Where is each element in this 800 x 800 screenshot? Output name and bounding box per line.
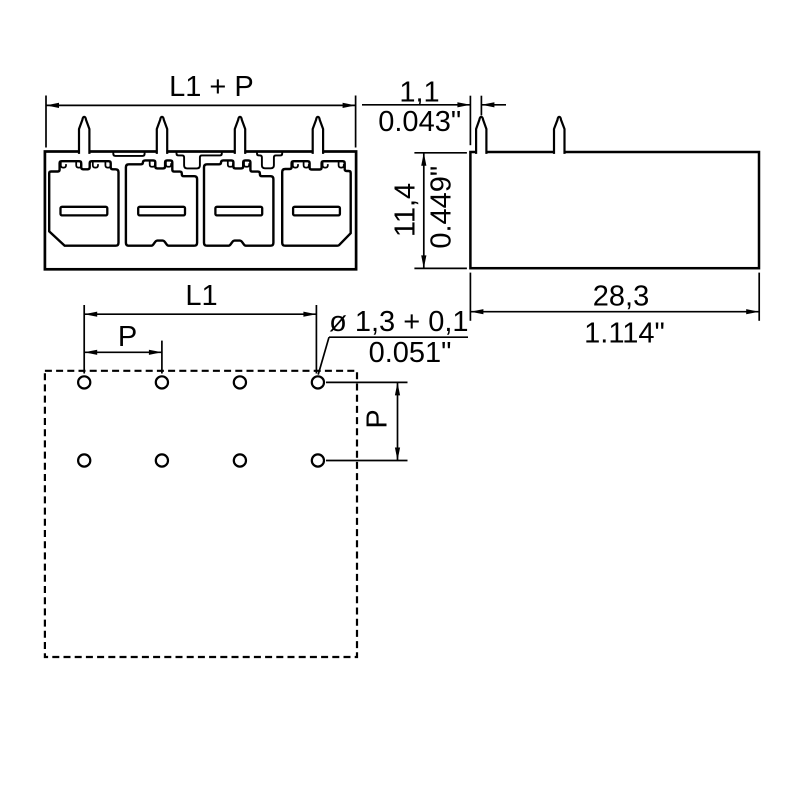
dimension 28,3 extension line right — [758, 273, 760, 321]
hole diameter leader line — [329, 336, 468, 338]
cavity 3 contact hooks — [228, 161, 233, 167]
drill hole row2 #1 — [78, 454, 90, 466]
drill hole row2 #4 — [312, 454, 324, 466]
dimension 1,1 extension line long — [469, 96, 471, 146]
svg-text:L1 + P: L1 + P — [169, 71, 254, 103]
svg-text:1.114": 1.114" — [584, 318, 665, 350]
plan dimension P tick — [161, 341, 163, 374]
side view pin row 1 — [476, 117, 486, 154]
svg-text:1,1: 1,1 — [399, 76, 439, 108]
dimension 28,3 line — [470, 311, 759, 313]
cavity 3 slot — [215, 207, 262, 216]
drill hole row2 #3 — [234, 454, 246, 466]
svg-text:0.043": 0.043" — [378, 106, 461, 138]
plan dimension P line — [84, 351, 162, 353]
side view housing rectangle — [470, 152, 759, 268]
housing top groove lip A — [113, 152, 144, 156]
drill hole row1 #2 — [156, 376, 168, 388]
plan dimension L1 tick left — [83, 305, 85, 374]
pole cavity 3 outline — [204, 160, 273, 245]
svg-text:0.051": 0.051" — [369, 337, 452, 369]
plan vertical P extension line top — [326, 381, 408, 383]
drill hole row1 #3 — [234, 376, 246, 388]
dimension L1+P extension line right — [355, 96, 357, 148]
dimension 1,1 line left segment — [362, 104, 470, 106]
cavity 4 slot — [293, 207, 340, 216]
svg-text:11,4: 11,4 — [390, 183, 422, 237]
svg-text:P: P — [118, 321, 137, 353]
cavity 2 contact hooks — [150, 161, 155, 167]
front view: connector housing body — [45, 152, 356, 270]
side view pin row 2 — [554, 117, 565, 154]
dimension L1+P extension line left — [45, 96, 47, 148]
housing top lip and latch pocket between poles 3-4 — [257, 152, 282, 168]
dimension 11,4 extension line top — [414, 152, 467, 154]
front view solder pin 1 — [79, 117, 89, 154]
cavity 2 slot — [138, 207, 185, 216]
dimension 1,1 extension line short — [480, 96, 482, 116]
dimension 11,4 line — [423, 153, 425, 269]
pole cavity 2 outline — [126, 160, 197, 245]
svg-text:28,3: 28,3 — [593, 280, 649, 312]
svg-text:0.449": 0.449" — [426, 166, 458, 249]
drill hole row2 #2 — [156, 454, 168, 466]
pole cavity 4 outline — [282, 161, 351, 246]
drill hole row1 #1 — [78, 376, 90, 388]
front view solder pin 4 — [313, 117, 323, 154]
front view solder pin 3 — [235, 117, 245, 154]
cavity 1 slot — [61, 207, 108, 216]
plan vertical P line — [397, 382, 399, 460]
cavity 4 contact hooks — [293, 162, 298, 168]
plan dimension L1 line — [84, 313, 316, 315]
svg-text:ø 1,3 + 0,1: ø 1,3 + 0,1 — [329, 306, 468, 338]
housing top lip and latch pocket between poles 2-3 — [177, 152, 222, 168]
plan vertical P extension line bottom — [326, 460, 408, 462]
pole cavity 1 outline — [49, 161, 118, 246]
dimension 1,1 line right segment — [481, 104, 506, 106]
dimension L1+P line — [46, 104, 356, 106]
svg-text:P: P — [362, 409, 394, 428]
drilling plan PCB dashed outline — [45, 371, 357, 657]
dimension 11,4 extension line bottom — [414, 267, 467, 269]
svg-text:L1: L1 — [185, 280, 217, 312]
drill hole row1 #4 — [312, 376, 324, 388]
front view solder pin 2 — [157, 117, 167, 154]
cavity 1 contact hooks — [61, 162, 66, 168]
plan dimension L1 tick right — [315, 305, 317, 374]
dimension 28,3 extension line left — [469, 273, 471, 321]
